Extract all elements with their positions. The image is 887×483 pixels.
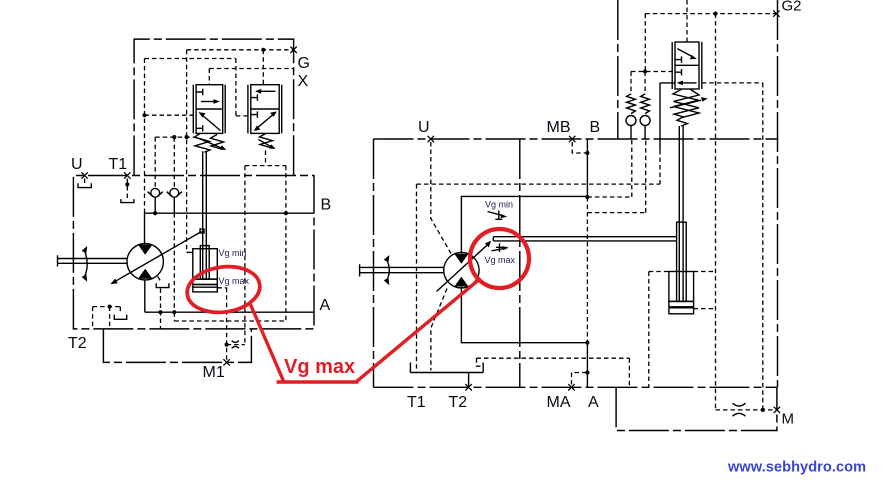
svg-text:X: X xyxy=(298,73,309,90)
valve V3 (pressure control valve) xyxy=(672,42,702,89)
channel B (left unit work line) xyxy=(145,212,315,214)
check valve CV1 (pilot supply from B) xyxy=(148,137,163,213)
svg-text:MA: MA xyxy=(547,394,571,411)
wire B pilot gallery (dashed) xyxy=(587,139,645,343)
pilot line G (dashed) xyxy=(187,49,294,51)
wire valve V3 drain right (dashed) xyxy=(702,83,763,410)
port MB (plugged) xyxy=(569,136,587,153)
node drain on A channel xyxy=(158,310,162,314)
wire pump port to B (solid) xyxy=(461,196,587,253)
drain collector cup (T1 T2) xyxy=(410,363,483,388)
svg-text:www.sebhydro.com: www.sebhydro.com xyxy=(727,460,866,476)
svg-text:Vg max: Vg max xyxy=(284,356,355,378)
red leader line right xyxy=(357,280,479,382)
node on control feed xyxy=(142,113,146,117)
port T2 pocket (case drain, dashed) xyxy=(93,305,127,329)
node on G line xyxy=(261,48,265,52)
port M with orifice xyxy=(716,403,781,416)
node MB on B line xyxy=(585,151,589,155)
red circle highlight (right Vg max) xyxy=(470,229,529,288)
pilot line X (dashed) xyxy=(209,69,293,85)
stroking cylinder Z1 (with feedback rod) xyxy=(193,151,218,292)
svg-text:M: M xyxy=(782,411,795,428)
enclosure boundary (measuring box with port M) xyxy=(616,387,777,430)
feedback rod horizontal (pump to cylinder, double line) xyxy=(493,237,676,241)
red ellipse highlight (left Vg max) xyxy=(184,262,263,317)
pump P1 (variable displacement axial piston pump) xyxy=(110,229,204,284)
wire G to valve V2 top (dashed) xyxy=(262,50,264,85)
svg-text:T1: T1 xyxy=(109,156,128,173)
port U (right unit) xyxy=(428,136,434,142)
svg-text:A: A xyxy=(320,297,331,314)
drive shaft of P1 xyxy=(58,255,128,266)
wire pilot supply junction (dashed) xyxy=(631,71,675,73)
svg-text:Vg max: Vg max xyxy=(219,276,250,286)
port T2 (right unit) xyxy=(465,384,471,390)
svg-text:G2: G2 xyxy=(782,0,802,15)
svg-text:B: B xyxy=(321,197,332,214)
wire spring chamber V2 drain (dashed) xyxy=(265,151,267,166)
svg-text:A: A xyxy=(588,394,599,411)
stroke limiter symbol Vg min xyxy=(488,211,508,220)
port G2 xyxy=(773,10,779,16)
wire measuring line M1 (dashed with orifice) xyxy=(217,288,245,362)
wire M gauge line (long dashed vertical) xyxy=(715,14,717,410)
node G2 line xyxy=(713,12,717,16)
enclosure boundary (left drain pocket with port M1) xyxy=(103,329,251,363)
inner dashed control box xyxy=(417,184,661,372)
svg-text:M1: M1 xyxy=(203,364,225,381)
port G (plugged, X marker) xyxy=(290,47,296,53)
valve V1 (left 2-position control valve) xyxy=(193,85,225,134)
svg-text:B: B xyxy=(590,119,601,136)
node B to check gallery xyxy=(585,195,589,199)
enclosure boundary (right upper pilot block edges, chain) xyxy=(618,0,778,387)
feedback rod of V3 (double line) xyxy=(679,126,683,301)
svg-text:Vg min: Vg min xyxy=(485,200,513,210)
wire B channel to pump port (solid) xyxy=(144,213,146,244)
stroking cylinder Z2 (counter piston) xyxy=(669,222,694,314)
node pilot supply xyxy=(643,69,647,73)
pilot line G2 (dashed) xyxy=(645,14,776,72)
node CV1 on B channel xyxy=(153,211,157,215)
wire drain gallery right (dashed) xyxy=(477,358,630,387)
red leader line left xyxy=(251,305,284,382)
enclosure boundary (right pump main frame, chain) xyxy=(374,139,779,387)
wire U control (dashed to swashplate) xyxy=(431,142,452,371)
svg-text:T2: T2 xyxy=(449,394,468,411)
svg-text:Vg max: Vg max xyxy=(485,255,516,265)
check valve RCV1 (spring loaded) xyxy=(626,72,636,140)
stroke limiter symbol Vg max xyxy=(492,243,509,252)
red underline xyxy=(277,380,359,384)
enclosure divider (chain) xyxy=(519,139,521,387)
node A junction xyxy=(585,341,589,345)
rotation direction arrow (shaft P1) xyxy=(82,246,88,282)
rotation direction arrow (shaft P2) xyxy=(384,255,390,285)
svg-text:U: U xyxy=(71,156,83,173)
node MA junction xyxy=(585,370,589,374)
node CV2 on A channel xyxy=(172,310,176,314)
check valve RCV2 (spring loaded) xyxy=(640,72,650,140)
valve V2 (right 2-position control valve) xyxy=(248,85,282,134)
channel A port line (solid) xyxy=(586,343,588,388)
node pilot loop on B channel xyxy=(284,211,288,215)
svg-text:U: U xyxy=(418,119,430,136)
spring of valve V1 (with adjustment arrow) xyxy=(195,133,227,152)
wire pump port to A (solid) xyxy=(461,287,587,343)
port MA xyxy=(568,373,587,391)
spring of valve V2 (with adjustment arrow) xyxy=(259,133,276,149)
svg-text:MB: MB xyxy=(547,119,571,136)
wire pilot select to valve V1 (dashed) xyxy=(155,136,196,138)
wire drain gallery (dashed) xyxy=(174,312,286,321)
svg-text:Vg min: Vg min xyxy=(219,248,247,258)
wire pilot drain loop (dashed) xyxy=(245,166,286,345)
enclosure boundary (left pump main frame, chain line) xyxy=(73,176,314,329)
wire valve V3 pilot top (dashed) xyxy=(686,0,688,42)
channel B (right unit, solid) xyxy=(586,139,588,197)
port M1 xyxy=(223,359,229,365)
node pilot 2 xyxy=(185,135,189,139)
svg-text:G: G xyxy=(298,55,310,72)
check valve CV2 (pilot supply from A) xyxy=(167,137,182,312)
drive shaft of P2 xyxy=(360,264,445,276)
svg-text:T2: T2 xyxy=(68,335,87,352)
node pilot xyxy=(172,135,176,139)
port T1 (plugged) xyxy=(121,172,134,202)
wire control feed (dashed, vertical to B channel) xyxy=(144,59,146,214)
pump case drain bracket xyxy=(156,277,169,330)
wire pump lower port to A channel xyxy=(144,280,146,313)
channel A (left unit work line) xyxy=(145,311,314,313)
port U (plugged) xyxy=(78,172,91,187)
enclosure boundary (left control-valve block, chain line) xyxy=(134,39,294,175)
wire valve V3 output (solid then dashed) xyxy=(660,83,675,184)
pilot wire (dashed box upper-left) xyxy=(145,59,248,116)
pump P2 (variable displacement axial piston pump) xyxy=(437,241,492,292)
spring of valve V3 (with adjustment arrow) xyxy=(670,89,708,126)
wire long pilot to cylinder head (dashed) xyxy=(187,50,193,253)
svg-text:T1: T1 xyxy=(407,394,426,411)
wire feedback to valve V1 (dashed) xyxy=(145,114,194,116)
wire cylinder case drain (dashed) xyxy=(649,272,716,388)
